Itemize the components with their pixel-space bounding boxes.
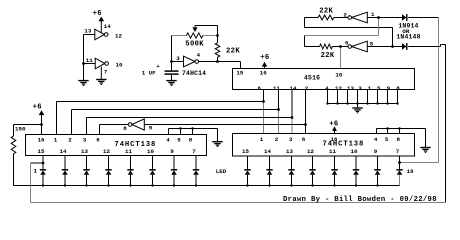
node LED8 on rail (195, 184, 197, 186)
inverter U1C 5/6 (352, 41, 368, 52)
svg-text:14: 14 (264, 148, 271, 155)
svg-text:1: 1 (371, 11, 375, 18)
wire bus D (Q4) (144, 124, 305, 126)
wire LED11 anode (291, 175, 293, 186)
svg-text:16: 16 (260, 69, 267, 76)
node LED13 on rail (333, 184, 335, 186)
wire right138 pin7 to LED16 (399, 156, 401, 169)
resistor 22K (bottom latch) (320, 44, 333, 49)
node pin 3 gnd bus (356, 102, 358, 104)
svg-text:22K: 22K (319, 7, 333, 15)
wire LED2 anode (64, 175, 66, 186)
node LED16 feedback tap (398, 161, 401, 164)
node pin1 junction (377, 16, 380, 19)
svg-text:10: 10 (147, 148, 154, 155)
node 4/5/8 tie d (398, 127, 400, 129)
wire bus A (Q1) (57, 101, 264, 103)
svg-text:10: 10 (116, 61, 123, 68)
LED 1 (40, 169, 46, 171)
wire to 4516 pin 10 (340, 47, 342, 69)
svg-text:150: 150 (15, 126, 26, 133)
wire +6 rail left (14, 124, 42, 126)
wire Q3 to right 138 pin3 (291, 118, 293, 134)
IC 4516 box (233, 69, 415, 90)
ground (4516 pins) (357, 104, 359, 108)
ground (cap) (166, 80, 176, 82)
wire left138 pin9 to LED7 (173, 156, 175, 170)
wire pin6 to inverter (100, 124, 129, 126)
node LED7 on rail (173, 184, 175, 186)
LED 4 (105, 169, 111, 171)
svg-text:12: 12 (103, 148, 110, 155)
svg-text:6: 6 (345, 39, 349, 46)
svg-text:4: 4 (197, 52, 201, 59)
svg-text:6: 6 (302, 136, 306, 143)
LED 5 (127, 169, 133, 171)
svg-text:7: 7 (192, 148, 196, 155)
node LED12 on rail (311, 184, 313, 186)
wire LED8 anode (195, 175, 197, 186)
LED 10 (266, 169, 272, 171)
node 4/5/8 tie a (179, 127, 181, 129)
pot right lead (203, 35, 218, 37)
wire D2 jog (440, 45, 442, 47)
node bus C / right pin3 (291, 116, 294, 119)
wire 22K to inverter out (bot) (332, 46, 348, 48)
node bus B / right pin2 (277, 108, 280, 111)
wire top latch lead (305, 17, 319, 19)
wire right edge to LED16 (438, 18, 440, 163)
wire right138 pin13 to LED11 (291, 156, 293, 169)
LED 12 (309, 169, 315, 171)
pin 9 stub (387, 90, 389, 104)
svg-text:12: 12 (335, 85, 342, 92)
svg-text:+: + (156, 63, 160, 70)
svg-text:LED: LED (216, 168, 227, 175)
svg-text:15: 15 (38, 148, 45, 155)
node LED2 on rail (64, 184, 66, 186)
node LED1 feedback tap (42, 162, 45, 165)
wire bus C (Q3) (87, 117, 293, 119)
wire Q1 to right 138 pin1 (263, 102, 265, 134)
LED 11 (288, 169, 294, 171)
wire right138 pin9 to LED15 (377, 156, 379, 169)
ground (left 138 enables) (217, 129, 219, 142)
svg-text:500K: 500K (185, 40, 204, 48)
node LED9 on rail (246, 184, 248, 186)
LED 16 (396, 169, 402, 171)
diode D2 1N4148 (402, 43, 406, 50)
svg-text:3: 3 (358, 85, 362, 92)
node +6 / pin16 (40, 123, 43, 126)
wire input tie vertical (83, 35, 85, 81)
svg-text:1 UF: 1 UF (142, 70, 156, 77)
wire Q3 to bus (291, 90, 293, 118)
wire Q1 to bus (263, 90, 265, 102)
node pin 9 gnd bus (386, 102, 388, 104)
inverter U1A 1/2 (352, 12, 368, 23)
svg-text:9: 9 (170, 148, 174, 155)
LED 8 (193, 169, 199, 171)
pot wiper arrow (192, 27, 197, 32)
wire latch to pin5 vert (392, 28, 394, 47)
node pin 13 gnd bus (346, 102, 348, 104)
svg-text:11: 11 (125, 148, 132, 155)
svg-text:6: 6 (257, 85, 261, 92)
svg-text:15: 15 (236, 69, 243, 76)
wire D1 cathode (408, 17, 438, 19)
svg-text:11: 11 (273, 85, 280, 92)
inverter U1F 13/12 (95, 29, 105, 40)
svg-text:+6: +6 (93, 10, 102, 18)
pin 3 stub (357, 90, 359, 104)
wire LED16 anode (399, 175, 401, 186)
svg-text:7: 7 (396, 148, 400, 155)
node LED4 on rail (107, 184, 109, 186)
wire latch loop top-left vert (304, 18, 306, 28)
node inputs 13+11 junction (82, 62, 85, 65)
svg-text:8: 8 (123, 125, 127, 132)
wire left138 pin10 to LED6 (152, 156, 154, 170)
svg-text:22K: 22K (226, 48, 240, 56)
node LED5 on rail (129, 184, 131, 186)
node pot/22K junction (216, 34, 219, 37)
wire Q2 to bus (278, 90, 280, 110)
wire right 138 4/5/8 tie (376, 129, 378, 134)
node pin 1 gnd bus (366, 102, 368, 104)
wire 150 to anode rail (14, 185, 44, 187)
wire right138 pin14 to LED10 (269, 156, 271, 169)
svg-text:4: 4 (166, 137, 170, 144)
pin 12 stub (337, 90, 339, 104)
svg-text:6: 6 (96, 137, 100, 144)
wire pin1 junction down (378, 18, 380, 36)
svg-text:13: 13 (81, 148, 88, 155)
wire right138 pin11 to LED13 (334, 156, 336, 169)
inverter U1D 9/8 enable (132, 119, 145, 130)
wire right138 pin12 to LED12 (312, 156, 314, 169)
svg-text:5: 5 (385, 136, 389, 143)
svg-text:11: 11 (329, 148, 336, 155)
wire inverter2 input (367, 46, 402, 48)
wire D2 cathode (408, 46, 440, 48)
wire Q4 to bus (305, 90, 307, 125)
wire LED14 anode (355, 175, 357, 186)
wire 22K to inverter out (334, 17, 348, 19)
pin 5 stub (377, 90, 379, 104)
node LED15 on rail (376, 184, 378, 186)
ground (pin 7) (96, 79, 106, 81)
svg-text:1: 1 (34, 168, 38, 175)
LED 15 (374, 169, 380, 171)
wire latch crossover upper (305, 27, 393, 29)
wire inverter1 input (367, 17, 402, 19)
node U/D takeoff (339, 45, 342, 48)
svg-text:2: 2 (275, 136, 279, 143)
LED 2 (62, 169, 68, 171)
pin 7 stem (100, 67, 102, 80)
svg-text:+6: +6 (33, 103, 42, 111)
wire pot right corner vertical (217, 26, 219, 43)
svg-text:+6: +6 (260, 54, 269, 62)
wire LED3 anode (86, 175, 88, 186)
wire left138 pin15 to LED1 (42, 156, 44, 170)
LED 7 (171, 169, 177, 171)
potentiometer 500K (186, 33, 203, 38)
svg-text:10: 10 (335, 71, 342, 78)
wire osc output (199, 61, 241, 63)
svg-text:13: 13 (286, 148, 293, 155)
svg-text:3: 3 (176, 55, 180, 62)
wire right138 pin15 to LED9 (247, 156, 249, 169)
node LED1 on rail (42, 184, 44, 186)
wire bottom return (LED1 to D2) (31, 202, 446, 204)
wire LED16 tap right (400, 162, 439, 164)
wire LED1 feedback down (30, 163, 32, 203)
wire LED6 anode (152, 175, 154, 186)
svg-text:8: 8 (396, 136, 400, 143)
wire LED4 anode (108, 175, 110, 186)
node LED10 on rail (268, 184, 270, 186)
inverter U1E 11/10 (95, 58, 105, 69)
node pin 4 gnd bus (326, 102, 328, 104)
wire left138 pin12 to LED4 (108, 156, 110, 170)
svg-text:9: 9 (149, 125, 153, 132)
wire latch loop bottom-left vert (304, 36, 306, 47)
node LED11 on rail (290, 184, 292, 186)
wire LED anode rail (43, 185, 400, 187)
node pin 12 gnd bus (336, 102, 338, 104)
svg-text:4516: 4516 (304, 74, 320, 81)
wire latch crossover lower (305, 35, 379, 37)
resistor 22K (top latch) (318, 15, 334, 20)
svg-text:1: 1 (368, 85, 372, 92)
wire clock corner (240, 62, 242, 69)
node bus A / right pin1 (262, 100, 265, 103)
wire bottom latch lead (305, 46, 320, 48)
capacitor 1UF (171, 62, 173, 71)
svg-text:+6: +6 (329, 121, 338, 129)
svg-text:Drawn By - Bill Bowden - 09/22: Drawn By - Bill Bowden - 09/22/98 (283, 196, 437, 204)
wire pin16 up (41, 125, 43, 135)
wire left138 pin11 to LED5 (130, 156, 132, 170)
IC 74HCT138 right box (233, 134, 415, 157)
wire LED5 anode (130, 175, 132, 186)
diode D1 1N914 (402, 14, 406, 21)
svg-text:1: 1 (54, 137, 58, 144)
wire right138 pin10 to LED14 (355, 156, 357, 169)
resistor 150 (13, 125, 15, 137)
IC 74HCT138 left box (26, 135, 207, 156)
svg-text:2: 2 (68, 137, 72, 144)
LED 9 (244, 169, 250, 171)
wire 4516 ground bus (328, 103, 398, 105)
ground (right 138 enables) (425, 129, 427, 148)
pin 13 stub (347, 90, 349, 104)
node LED14 on rail (355, 184, 357, 186)
LED 13 (331, 169, 337, 171)
wire LED12 anode (312, 175, 314, 186)
svg-text:74HC14: 74HC14 (182, 70, 206, 77)
wire left138 pin7 to LED8 (195, 156, 197, 170)
LED 6 (149, 169, 155, 171)
svg-text:7: 7 (104, 69, 108, 76)
node pin 8 gnd bus (396, 102, 398, 104)
svg-text:14: 14 (104, 23, 111, 30)
svg-text:12: 12 (307, 148, 314, 155)
wire LED9 anode (247, 175, 249, 186)
wire Q4 to right 138 pin6 (305, 125, 307, 134)
svg-text:22K: 22K (321, 52, 335, 60)
wire LED1 anode (42, 175, 44, 186)
svg-text:8: 8 (396, 85, 400, 92)
svg-text:1N4148: 1N4148 (396, 34, 420, 41)
wire left 138 4/5/8 tie (168, 129, 170, 135)
node 4/5/8 tie c (386, 127, 388, 129)
svg-text:16: 16 (407, 168, 414, 175)
svg-text:13: 13 (84, 27, 91, 34)
node pin 5 gnd bus (376, 102, 378, 104)
svg-text:11: 11 (86, 57, 93, 64)
pot wiper feedback wire (195, 25, 218, 27)
22K bottom lead (217, 57, 219, 61)
wire LED10 anode (269, 175, 271, 186)
wire LED13 anode (334, 175, 336, 186)
pot left lead (172, 35, 187, 37)
wire pin13 input (84, 34, 95, 36)
svg-text:3: 3 (83, 137, 87, 144)
wire left138 pin14 to LED2 (64, 156, 66, 170)
svg-text:10: 10 (351, 148, 358, 155)
node 4/5/8 tie b (191, 127, 193, 129)
wire pin11 input (84, 63, 96, 65)
wire pot feedback vertical (171, 36, 173, 62)
svg-text:8: 8 (189, 137, 193, 144)
svg-text:15: 15 (242, 148, 249, 155)
svg-text:1: 1 (260, 136, 264, 143)
wire bus B (Q2) (72, 109, 279, 111)
svg-text:14: 14 (290, 85, 297, 92)
node osc out / 22K (216, 60, 219, 63)
wire LED7 anode (173, 175, 175, 186)
wire LED15 anode (377, 175, 379, 186)
svg-text:16: 16 (38, 137, 45, 144)
pin 8 stub (397, 90, 399, 104)
node bus D / right pin6 (304, 123, 307, 126)
wire left 138 pin6 up (99, 125, 101, 135)
pin 1 stub (367, 90, 369, 104)
node osc input (pin 3) (170, 60, 173, 63)
svg-text:5: 5 (177, 137, 181, 144)
node LED3 on rail (85, 184, 87, 186)
resistor 22K (osc) (215, 43, 220, 57)
svg-text:14: 14 (60, 148, 67, 155)
node LED6 on rail (151, 184, 153, 186)
node pin5 junction (391, 45, 394, 48)
svg-text:16: 16 (331, 136, 338, 143)
wire LED1 tap left (31, 162, 44, 164)
LED 14 (353, 169, 359, 171)
wire far right edge down (445, 45, 447, 203)
pin 4 stub (327, 90, 329, 104)
inverter U1B osc 3/4 (184, 56, 196, 67)
svg-text:2: 2 (343, 12, 347, 19)
wire osc input (172, 61, 184, 63)
wire Q2 to right 138 pin2 (278, 110, 280, 134)
ground (input tie) (78, 80, 88, 82)
svg-text:4: 4 (374, 136, 378, 143)
svg-text:13: 13 (347, 85, 354, 92)
svg-text:3: 3 (289, 136, 293, 143)
LED 3 (83, 169, 89, 171)
svg-text:12: 12 (115, 32, 122, 39)
svg-text:9: 9 (374, 148, 378, 155)
wire left138 pin13 to LED3 (86, 156, 88, 170)
